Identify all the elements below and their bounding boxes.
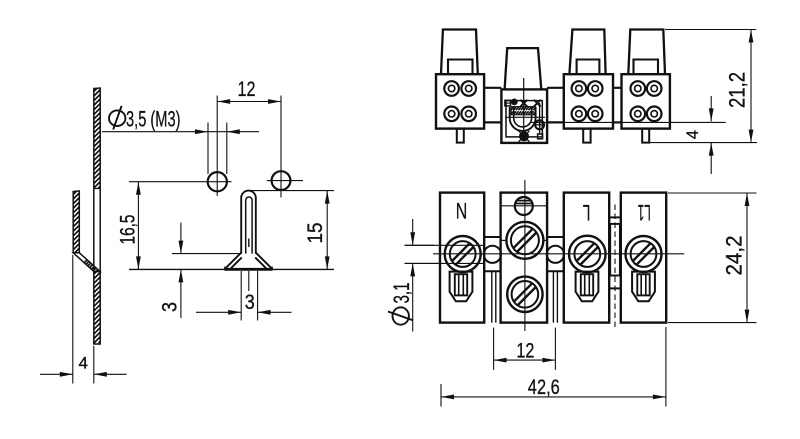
- pole 3 solder pin: [583, 129, 590, 143]
- dimension 4 (pin stand-off): dimension line with outside arrows: [710, 96, 712, 121]
- pole 1 body: [436, 74, 484, 128]
- dimension 3 (pin width): extension lines: [240, 271, 242, 321]
- hole Phi3.5: tangent projection lines: [207, 123, 209, 175]
- breakable junction: middle link rectangle: [610, 224, 620, 276]
- svg-text:3: 3: [158, 302, 182, 312]
- pole 3 clamping screw: [569, 236, 606, 273]
- dimension phi3,1: value label (rotated): [388, 283, 414, 325]
- chassis plane line: [530, 121, 726, 123]
- svg-text:12: 12: [238, 77, 256, 101]
- dimension 4 (bracket offset): extension lines: [72, 255, 74, 384]
- pole 1 wire cage: [450, 272, 473, 302]
- wire channel lines through pole 1: [405, 244, 485, 246]
- dimension 24,2: extension lines: [668, 192, 757, 194]
- svg-text:15: 15: [303, 222, 327, 243]
- pole 1 clamping screw: [445, 236, 481, 272]
- wire hole circle between pole2-pole3: [547, 246, 564, 263]
- pole 2 section: horizontal centre line: [505, 116, 545, 118]
- breakable junction pole3-pole4: top slot floor: [609, 216, 621, 218]
- pole 2 outline: [501, 193, 547, 323]
- dimension 4: dimension line with outside arrows: [40, 373, 73, 375]
- main horizontal centre line: [433, 253, 684, 255]
- hole circle right: [272, 171, 291, 190]
- pole 2 centre line (vertical): [524, 180, 526, 331]
- dimension 42,6: dimension line: [441, 396, 666, 398]
- pole 2 section: small square bottom right: [538, 134, 543, 139]
- pole 4 solder pin: [642, 129, 649, 143]
- svg-text:3,5 (M3): 3,5 (M3): [126, 107, 181, 132]
- web between pole1 and pole2: [484, 87, 501, 89]
- svg-text:3: 3: [245, 290, 255, 314]
- solder pin flare: end ticks: [224, 267, 226, 270]
- pole 4 clamping screw: [626, 236, 662, 272]
- pole 4 body: [622, 74, 670, 128]
- pole 3 wire cage: [576, 272, 599, 302]
- dimension 12 (hole spacing): dimension line: [217, 101, 281, 103]
- dimension 16,5: dimension line: [137, 182, 139, 270]
- side view: bent-out tab strip: [73, 191, 79, 253]
- pole 3 clamp recess: [577, 60, 600, 75]
- pole 2 top screw horizontal edge: [501, 205, 547, 207]
- side view: lance opening edge: [94, 188, 100, 190]
- pole 3 wire-entry circles (2x2): [572, 81, 603, 121]
- pole 2 section: screw head disc: [511, 99, 518, 106]
- side view: hatching of main strip lower section: [94, 271, 100, 343]
- dimension 21,2: dimension line: [750, 30, 752, 143]
- dimension 15 (pin height): top extension line: [250, 190, 334, 192]
- dimension phi3,1: dimension line, outside arrows: [412, 219, 414, 245]
- dimension 24,2: dimension line: [746, 193, 748, 323]
- pole 4 clamp recess: [634, 60, 659, 75]
- pole 2 section: sectioned screw X mark left: [520, 100, 527, 107]
- svg-text:42,6: 42,6: [528, 376, 560, 399]
- dimension 12 (plan): dimension line: [494, 359, 556, 361]
- pole 1 solder pin: [457, 129, 464, 143]
- pole 3 wire funnel: [569, 30, 605, 75]
- solder pin: centre tick: [248, 239, 250, 248]
- pole 4 wire-entry circles (2x2): [631, 81, 662, 121]
- dimension 3 (flare height): extension line: [172, 253, 241, 255]
- dimension 3 (pin width): dimension line, outside arrows: [196, 311, 241, 313]
- channel below hole pole1-pole2: [491, 271, 493, 322]
- svg-text:21,2: 21,2: [725, 72, 750, 108]
- pole 2 body (sectioned): [501, 89, 547, 142]
- web between pole2 and pole3: [547, 87, 564, 89]
- pole 4 outline (L1): [621, 193, 666, 323]
- svg-text:3,1: 3,1: [389, 283, 414, 304]
- svg-text:12: 12: [516, 340, 534, 363]
- pole 2 section: screw thread hatch bands: [511, 107, 536, 115]
- pole 2 clamping screw upper: [506, 222, 543, 259]
- pole 3 body: [564, 74, 613, 128]
- breakable junction: dashed centre line: [614, 205, 616, 328]
- pole 4 wire funnel: [628, 30, 665, 75]
- dimension 42,6: extension lines: [440, 384, 442, 407]
- solder pin: inner contour: [246, 197, 252, 254]
- dimension 12 (hole spacing, plan): extension lines: [493, 328, 495, 370]
- pole 2 earth screw (small, top): [515, 197, 533, 215]
- wire hole circle between pole1-pole2: [484, 246, 501, 263]
- solder pin flare: left diagonals: [225, 252, 242, 269]
- pole 2 section: screw axis centre line: [523, 78, 525, 140]
- pin bottom extension line: [650, 142, 757, 144]
- pole 2 section: clamp nut square: [505, 100, 511, 106]
- svg-text:4: 4: [684, 130, 702, 139]
- dimension 21,2: top extension line: [665, 29, 756, 31]
- solder pin flare: bottom edge: [224, 268, 272, 271]
- pole 2 wire funnel (sectioned pole): [505, 48, 542, 89]
- dimension 12: extension / centre lines: [216, 96, 218, 197]
- pole 2 centre-screw side lines: [501, 239, 507, 241]
- dimension 15: dimension line: [326, 191, 328, 270]
- pole 2 section: wire cross-section (bottom, filled): [519, 131, 529, 141]
- hole Phi3.5: label text: [109, 110, 125, 126]
- pole 1 clamp recess: [448, 60, 473, 75]
- pole 1 wire funnel: [441, 30, 478, 75]
- pole 2 section: wire clamp stirrup: [510, 107, 536, 131]
- solder pin flare: right diagonals: [256, 252, 273, 269]
- svg-text:16,5: 16,5: [116, 214, 140, 244]
- svg-text:L1: L1: [638, 200, 651, 225]
- solder pin: outer contour: [241, 191, 256, 254]
- svg-text:N: N: [456, 199, 468, 224]
- wire hole between pole1-pole2: web edges: [484, 236, 500, 238]
- channel below hole pole2-pole3: [552, 271, 554, 322]
- side view: main bracket strip outline: [94, 88, 100, 344]
- dimension 3 (pin width): pin centre line: [248, 271, 250, 291]
- hole Phi3.5: leader line with arrows: [102, 131, 259, 133]
- web between pole3 and pole4: [613, 87, 622, 89]
- svg-text:L: L: [583, 200, 591, 225]
- dimension phi3,1: extension lines: [405, 244, 434, 246]
- svg-text:24,2: 24,2: [722, 236, 747, 276]
- pole 2 clamping screw lower: [507, 277, 542, 312]
- pole 3 outline (L): [564, 193, 609, 323]
- base line of side view: [129, 268, 334, 270]
- pole 1 outline (N): [440, 193, 484, 323]
- side view: hatching of main strip upper section: [94, 89, 100, 189]
- pole 4 wire cage: [632, 272, 655, 302]
- pole 2 section: sectioned screw X mark right: [534, 100, 541, 107]
- pole 2 section: right guide line: [539, 103, 541, 134]
- dimension 3 (flare height): dimension line, outside arrows: [180, 223, 182, 254]
- hole circle left: [208, 172, 227, 191]
- wire hole between pole2-pole3: web edges: [547, 236, 564, 238]
- pole 1 wire-entry circles (2x2): [444, 81, 476, 121]
- pole 2 section: inner frame: [506, 101, 542, 137]
- hole circle right: horizontal centre line: [267, 180, 303, 182]
- pole 2 section: clamp bolt end (right): [535, 120, 544, 129]
- svg-text:4: 4: [79, 354, 88, 373]
- breakable junction: bottom slot floor: [609, 287, 621, 289]
- dimension 16,5: extension line through left hole centre: [129, 181, 232, 183]
